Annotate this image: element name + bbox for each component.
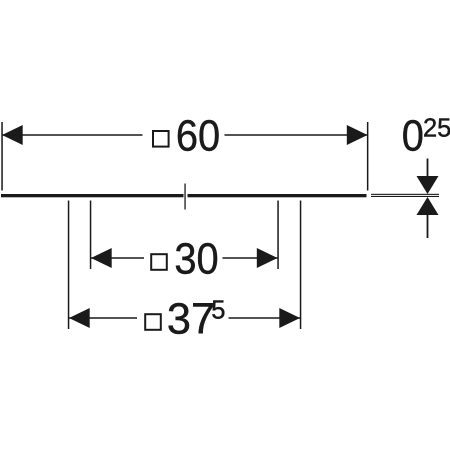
svg-text:30: 30 [174, 234, 218, 283]
extension line right outer (dim 37.5) [300, 201, 302, 330]
square symbol for 37.5 [145, 314, 161, 330]
extension line right inner (dim 30) [277, 201, 279, 270]
arrowhead 30 left [91, 248, 112, 268]
extension line right (dim 60) [367, 122, 369, 191]
dimension line 30 left segment [91, 257, 144, 259]
arrowhead thickness down [417, 176, 439, 194]
extension line left inner (dim 30) [90, 201, 92, 270]
svg-text:5: 5 [211, 296, 225, 324]
extension line left outer (dim 37.5) [68, 201, 70, 330]
arrowhead 60 left [2, 125, 23, 145]
svg-text:0: 0 [402, 111, 424, 160]
arrowhead thickness up [417, 197, 439, 215]
dimension line 60 left segment [2, 134, 143, 136]
thickness dim line above [427, 159, 429, 177]
plate side profile: right segment [188, 194, 367, 197]
square symbol for 60 [153, 131, 169, 147]
plate surface extension top line (thickness dim) [371, 194, 439, 195]
dimension line 37.5 left segment [69, 317, 137, 319]
dimension line 37.5 right segment [229, 317, 301, 319]
dimension line 30 right segment [223, 257, 278, 259]
extension line left (dim 60) [1, 122, 3, 191]
plate top view side profile: left segment [1, 194, 184, 197]
svg-text:25: 25 [423, 114, 450, 142]
arrowhead 30 right [257, 248, 278, 268]
svg-text:60: 60 [176, 111, 220, 160]
square symbol for 30 [151, 254, 167, 270]
thickness dim line below [427, 215, 429, 239]
arrowhead 37.5 right [279, 308, 300, 328]
plate surface extension bottom line (thickness dim) [371, 196, 439, 197]
center tick [184, 184, 185, 210]
arrowhead 60 right [347, 125, 368, 145]
svg-text:37: 37 [167, 296, 215, 344]
dimension line 60 right segment [225, 134, 368, 136]
arrowhead 37.5 left [69, 308, 90, 328]
